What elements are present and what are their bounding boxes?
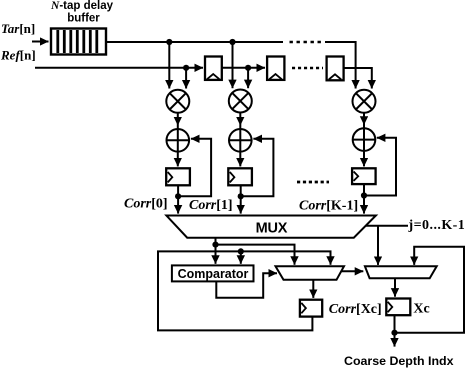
N-tap delay buffer (shift register) [51,29,106,55]
node: Tar tap stage 1 [166,39,172,45]
mux X1 (2:1) [276,266,345,280]
wire Xc feedback loop to mux X2 [395,247,465,333]
node: MUX output [212,242,218,248]
node: Corr[1] tap [238,193,244,199]
wire Tar tap 1 down to multiplier M1 [168,42,170,89]
wire R3 output to multiplier M3 right input [344,68,372,89]
wire MUX output to mux X1 input [216,245,295,265]
node: Ref tap stage 1 [183,65,189,71]
wire feedback G1 to A1 [178,139,211,197]
node: Corr[0] tap [175,193,181,199]
wire M2 through adder A2 into register G2 [239,113,241,167]
wire comparator output to mux X1 select [216,273,277,298]
comparator U1 [172,265,254,281]
accumulator register G2 [228,168,252,185]
wire Xc output to coarse depth index [394,315,396,346]
accumulator register G3 [352,168,376,184]
svg-text:Corr[0]: Corr[0] [124,197,168,212]
wire Tar[n] into buffer [32,41,49,43]
mux X2 (2:1) [365,266,437,278]
adder A1 [167,129,190,152]
register Xc [386,299,410,316]
wire G1 output to MUX [177,185,179,214]
svg-text:Coarse Depth Indx: Coarse Depth Indx [344,354,454,368]
wire feedback G2 to A2 [241,139,274,197]
node: Corr[Xc] feedback tap [238,248,244,254]
multiplier M3 [353,90,376,113]
wire mux X1 select chain to mux X2 [341,270,363,272]
wire feedback branch into comparator [240,251,242,263]
wire Ref tap 1 down to multiplier M1 [185,68,187,89]
svg-text:Corr[Xc]: Corr[Xc] [329,302,382,317]
wire j branch down to mux X2 [377,226,379,265]
adder A2 [229,129,252,152]
multiplier M1 [166,90,189,113]
wire G2 output to MUX [240,185,242,214]
node: Tar tap stage 2 [229,39,235,45]
wire feedback G3 to A3 [364,138,396,196]
label: N-tap delay buffer [50,0,114,25]
wire j index out of MUX [366,225,408,227]
svg-text:Ref[n]: Ref[n] [0,47,36,62]
wire Tar tap 2 down to multiplier M2 [232,42,234,88]
register R2 (ref delay) [267,57,284,80]
wire Tar bus from buffer (with ellipsis gap) to stage-3 drop [106,41,283,43]
wire Ref tap 2 down to multiplier M2 [247,68,249,88]
wire R1 to R2 [222,67,265,69]
multiplier M2 [229,90,252,113]
ellipsis: register chain continues [292,67,323,70]
wire MUX output down to comparator [215,238,217,264]
svg-text:Tar[n]: Tar[n] [1,21,35,36]
wire M3 through adder A3 into register G3 [363,113,365,167]
svg-text:Corr[K-1]: Corr[K-1] [299,199,358,214]
svg-text:buffer: buffer [67,13,100,25]
wire M1 through adder A1 into register G1 [177,113,179,167]
svg-text:j=0...K-1: j=0...K-1 [408,218,466,233]
node: Ref tap stage 2 [245,65,251,71]
accumulator register G1 [166,168,190,185]
wire Ref line into register R1 [35,67,203,69]
wire G3 output to MUX [363,184,365,214]
svg-text:Corr[1]: Corr[1] [189,198,233,213]
wire mux X2 output to register Xc [394,278,396,296]
wire Corr[Xc] feedback loop (register to comparator and mux X1) [158,251,331,330]
register Corr[Xc] [300,300,322,317]
node: Corr[K-1] tap [361,192,367,198]
adder A3 [353,128,376,151]
node: Xc output tap [391,330,397,336]
svg-text:Comparator: Comparator [178,267,249,281]
register R1 (ref delay) [205,57,222,80]
svg-text:Xc: Xc [413,302,429,317]
svg-text:MUX: MUX [256,221,288,237]
register R3 (last ref delay) [327,57,344,81]
ellipsis: accumulator stages continue [297,181,329,184]
MUX K:1 [166,216,376,238]
wire mux X1 output to register Corr[Xc] [312,280,314,298]
svg-text:N-tap delay: N-tap delay [50,0,114,12]
